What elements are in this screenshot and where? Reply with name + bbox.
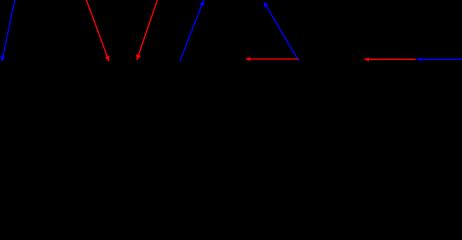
arrow blue horizontal left (far right, from edge) <box>417 58 462 60</box>
arrow red down-right (left of V) <box>86 0 109 61</box>
arrow blue down-left (far left) <box>2 0 15 61</box>
arrow blue up-right <box>180 0 204 62</box>
arrow blue up-left <box>264 2 299 61</box>
arrow red horizontal left (right side) <box>364 58 415 60</box>
arrow red horizontal left (middle) <box>246 58 299 60</box>
arrow red down-left (right of V) <box>137 0 158 60</box>
